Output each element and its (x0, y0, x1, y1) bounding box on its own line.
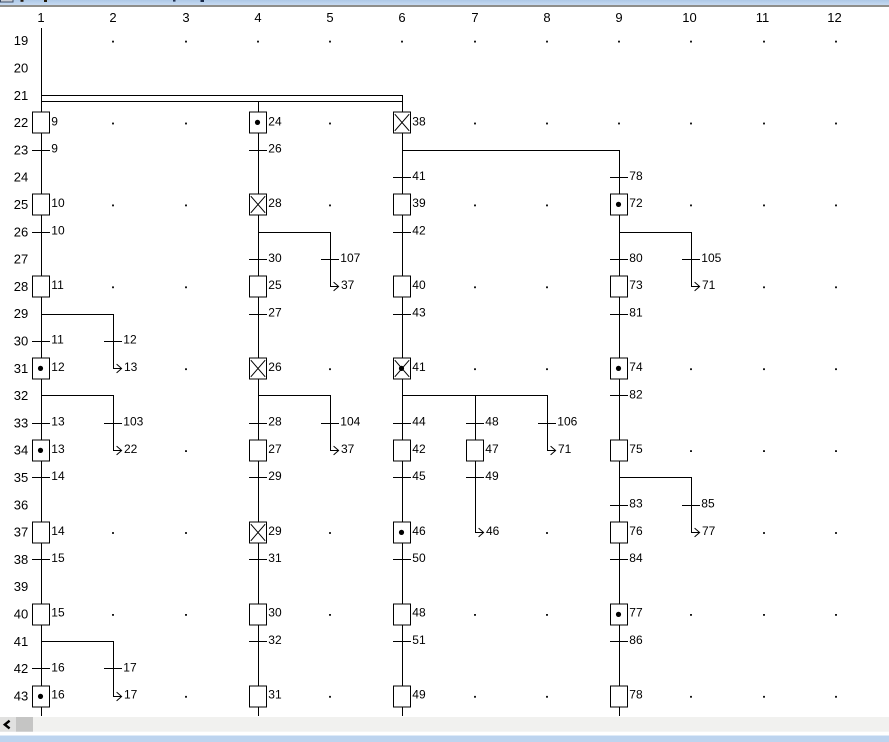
svg-text:28: 28 (268, 196, 282, 210)
step 47 (col 7, row 34) (467, 440, 499, 461)
transition 26 (col 4, row 23) (249, 142, 282, 156)
svg-text:9: 9 (615, 10, 622, 25)
svg-text:39: 39 (14, 579, 28, 594)
transition 41 (col 6, row 24) (393, 169, 426, 183)
svg-text:45: 45 (412, 469, 426, 483)
transition 80 (col 9, row 27) (610, 251, 643, 265)
svg-text:9: 9 (51, 114, 58, 128)
transition 12 (col 2, row 30) (104, 333, 137, 347)
svg-text:74: 74 (629, 360, 643, 374)
svg-text:82: 82 (629, 387, 643, 401)
active step 72 (col 9, row 25) (611, 194, 643, 215)
svg-text:16: 16 (51, 688, 65, 702)
step 31 (col 4, row 43) (250, 686, 282, 707)
step 73 (col 9, row 28) (611, 276, 643, 297)
svg-text:77: 77 (702, 524, 716, 538)
svg-text:8: 8 (543, 10, 550, 25)
transition 51 (col 6, row 41) (393, 633, 426, 647)
transition 84 (col 9, row 38) (610, 551, 643, 565)
step 39 (col 6, row 25) (394, 194, 426, 215)
svg-text:15: 15 (51, 606, 65, 620)
svg-text:86: 86 (629, 633, 643, 647)
svg-text:30: 30 (268, 251, 282, 265)
transition 86 (col 9, row 41) (610, 633, 643, 647)
svg-text:34: 34 (14, 443, 28, 458)
svg-text:32: 32 (268, 633, 282, 647)
step 48 (col 6, row 40) (394, 604, 426, 625)
svg-text:38: 38 (14, 552, 28, 567)
svg-text:3: 3 (182, 10, 189, 25)
step 14 (col 1, row 37) (33, 522, 65, 543)
wire: branch row 29 col1 to col2 (41, 314, 114, 315)
svg-text:72: 72 (629, 196, 643, 210)
svg-text:26: 26 (14, 224, 28, 239)
active step 46 (col 6, row 37) (394, 522, 426, 543)
jump to step 13 (col 2, row 31) (113, 314, 138, 374)
macro step 38 (col 6, row 22) (394, 112, 426, 133)
status bar strip (0, 736, 889, 742)
svg-text:40: 40 (14, 607, 28, 622)
transition 50 (col 6, row 38) (393, 551, 426, 565)
svg-text:48: 48 (485, 415, 499, 429)
svg-text:2: 2 (109, 10, 116, 25)
svg-text:36: 36 (14, 497, 28, 512)
svg-text:35: 35 (14, 470, 28, 485)
wire: col7 drop row 32 to row 37 (475, 395, 476, 532)
step 42 (col 6, row 34) (394, 440, 426, 461)
transition 27 (col 4, row 29) (249, 305, 282, 319)
wire: branch row 32 col6 to col8 (402, 395, 548, 396)
svg-text:10: 10 (682, 10, 696, 25)
svg-text:26: 26 (268, 142, 282, 156)
wire: branch row 35 col9 to col10 (619, 477, 692, 478)
svg-text:12: 12 (51, 360, 65, 374)
transition 9 (col 1, row 23) (32, 142, 58, 156)
svg-text:11: 11 (51, 333, 64, 347)
svg-text:77: 77 (629, 606, 643, 620)
transition 81 (col 9, row 29) (610, 305, 643, 319)
svg-text:27: 27 (268, 442, 282, 456)
transition 85 (col 10, row 36) (682, 497, 715, 511)
jump to step 71 (col 8, row 34) (547, 395, 572, 456)
transition 17 (col 2, row 42) (104, 660, 137, 674)
active macro step 41 (col 6, row 31) (394, 358, 426, 379)
transition 104 (col 5, row 33) (321, 415, 361, 429)
transition 15 (col 1, row 38) (32, 551, 65, 565)
transition 10 (col 1, row 26) (32, 224, 65, 238)
svg-text:33: 33 (14, 415, 28, 430)
svg-text:104: 104 (340, 415, 360, 429)
transition 28 (col 4, row 33) (249, 415, 282, 429)
svg-text:40: 40 (412, 278, 426, 292)
transition 13 (col 1, row 33) (32, 415, 65, 429)
transition 105 (col 10, row 27) (682, 251, 722, 265)
svg-text:107: 107 (340, 251, 360, 265)
svg-text:5: 5 (326, 10, 333, 25)
step 76 (col 9, row 37) (611, 522, 643, 543)
jump to step 17 (col 2, row 43) (113, 641, 138, 702)
svg-text:20: 20 (14, 61, 28, 76)
svg-text:28: 28 (268, 415, 282, 429)
svg-text:13: 13 (51, 442, 65, 456)
svg-text:13: 13 (124, 360, 138, 374)
svg-text:44: 44 (412, 415, 426, 429)
svg-text:25: 25 (14, 197, 28, 212)
svg-text:103: 103 (123, 415, 143, 429)
step 49 (col 6, row 43) (394, 686, 426, 707)
transition 49 (col 7, row 35) (466, 469, 499, 483)
svg-text:83: 83 (629, 497, 643, 511)
svg-text:38: 38 (412, 114, 426, 128)
svg-text:11: 11 (51, 278, 64, 292)
svg-text:31: 31 (268, 551, 282, 565)
step 11 (col 1, row 28) (33, 276, 65, 297)
svg-text:37: 37 (14, 525, 28, 540)
wire: column 1 main rail (41, 28, 42, 716)
svg-text:19: 19 (14, 33, 28, 48)
svg-text:27: 27 (268, 305, 282, 319)
svg-text:39: 39 (412, 196, 426, 210)
svg-text:1: 1 (37, 10, 44, 25)
active step 74 (col 9, row 31) (611, 358, 643, 379)
svg-text:43: 43 (412, 305, 426, 319)
svg-text:4: 4 (254, 10, 261, 25)
step 15 (col 1, row 40) (33, 604, 65, 625)
svg-text:30: 30 (268, 606, 282, 620)
svg-text:10: 10 (51, 224, 65, 238)
svg-text:6: 6 (398, 10, 405, 25)
svg-text:51: 51 (412, 633, 426, 647)
svg-text:71: 71 (702, 278, 716, 292)
svg-text:76: 76 (629, 524, 643, 538)
scrollbar left arrow (5, 721, 10, 729)
wire: column 6 rail (402, 95, 403, 716)
active step 24 (col 4, row 22) (250, 112, 282, 133)
svg-text:29: 29 (14, 306, 28, 321)
svg-text:17: 17 (124, 688, 138, 702)
wire: column 4 rail (258, 101, 259, 716)
transition 44 (col 6, row 33) (393, 415, 426, 429)
svg-text:16: 16 (51, 660, 65, 674)
wire: branch row 23 col6 to col9 (402, 150, 620, 151)
macro step 28 (col 4, row 25) (250, 194, 282, 215)
svg-text:43: 43 (14, 688, 28, 703)
svg-text:80: 80 (629, 251, 643, 265)
step 40 (col 6, row 28) (394, 276, 426, 297)
wire: column 9 rail (619, 150, 620, 716)
active step 16 (col 1, row 43) (33, 686, 65, 707)
step 30 (col 4, row 40) (250, 604, 282, 625)
active step 77 (col 9, row 40) (611, 604, 643, 625)
svg-text:32: 32 (14, 388, 28, 403)
svg-text:75: 75 (629, 442, 643, 456)
svg-text:14: 14 (51, 524, 65, 538)
svg-text:49: 49 (485, 469, 499, 483)
svg-text:22: 22 (124, 442, 138, 456)
jump to step 77 (col 10, row 37) (691, 477, 716, 538)
jump to step 37 (col 5, row 34) (330, 395, 355, 456)
step 25 (col 4, row 28) (250, 276, 282, 297)
svg-text:41: 41 (14, 634, 28, 649)
svg-text:42: 42 (412, 224, 426, 238)
wire: branch row 26 col9 to col10 (619, 232, 692, 233)
transition 11 (col 1, row 30) (32, 333, 64, 347)
transition 14 (col 1, row 35) (32, 469, 65, 483)
wire: branch row 26 col4 to col5 (258, 232, 331, 233)
svg-text:84: 84 (629, 551, 643, 565)
svg-text:24: 24 (14, 170, 28, 185)
svg-text:28: 28 (14, 279, 28, 294)
svg-text:29: 29 (268, 524, 282, 538)
jump to step 71 (col 10, row 28) (691, 232, 716, 292)
step 27 (col 4, row 34) (250, 440, 282, 461)
svg-text:26: 26 (268, 360, 282, 374)
step 78 (col 9, row 43) (611, 686, 643, 707)
transition 30 (col 4, row 27) (249, 251, 282, 265)
divergence double line row 21 (41, 95, 403, 102)
svg-text:106: 106 (557, 415, 577, 429)
svg-text:48: 48 (412, 606, 426, 620)
svg-text:46: 46 (486, 524, 500, 538)
svg-text:21: 21 (14, 88, 28, 103)
svg-text:9: 9 (51, 142, 58, 156)
svg-text:78: 78 (629, 169, 643, 183)
active step 13 (col 1, row 34) (33, 440, 65, 461)
svg-text:13: 13 (51, 415, 65, 429)
svg-text:78: 78 (629, 688, 643, 702)
svg-text:73: 73 (629, 278, 643, 292)
svg-text:25: 25 (268, 278, 282, 292)
svg-text:12: 12 (827, 10, 841, 25)
transition 29 (col 4, row 35) (249, 469, 282, 483)
svg-text:85: 85 (701, 497, 715, 511)
row header numbers 19-43 (14, 33, 28, 703)
transition 42 (col 6, row 26) (393, 224, 426, 238)
transition 106 (col 8, row 33) (538, 415, 578, 429)
svg-text:46: 46 (412, 524, 426, 538)
step 10 (col 1, row 25) (33, 194, 65, 215)
active step 12 (col 1, row 31) (33, 358, 65, 379)
svg-text:31: 31 (14, 361, 28, 376)
svg-text:41: 41 (412, 360, 426, 374)
svg-text:10: 10 (51, 196, 65, 210)
transition 16 (col 1, row 42) (32, 660, 65, 674)
svg-text:37: 37 (341, 442, 355, 456)
svg-text:29: 29 (268, 469, 282, 483)
transition 43 (col 6, row 29) (393, 305, 426, 319)
step 9 (col 1, row 22) (33, 112, 59, 133)
transition 103 (col 2, row 33) (104, 415, 144, 429)
svg-text:14: 14 (51, 469, 65, 483)
jump to step 22 (col 2, row 34) (113, 395, 138, 456)
svg-text:30: 30 (14, 334, 28, 349)
macro step 29 (col 4, row 37) (250, 522, 282, 543)
transition 82 (col 9, row 32) (610, 387, 643, 401)
svg-text:50: 50 (412, 551, 426, 565)
wire: branch row 32 col4 to col5 (258, 395, 331, 396)
macro step 26 (col 4, row 31) (250, 358, 282, 379)
wire: branch row 32 col1 to col2 (41, 395, 114, 396)
transition 45 (col 6, row 35) (393, 469, 426, 483)
transition 48 (col 7, row 33) (466, 415, 499, 429)
transition 83 (col 9, row 36) (610, 497, 643, 511)
svg-text:12: 12 (123, 333, 137, 347)
transition 78 (col 9, row 24) (610, 169, 643, 183)
jump to step 46 (col 7, row 37) (475, 524, 500, 538)
svg-text:41: 41 (412, 169, 426, 183)
svg-text:7: 7 (471, 10, 478, 25)
svg-text:37: 37 (341, 278, 355, 292)
svg-text:23: 23 (14, 142, 28, 157)
scrollbar thumb (16, 717, 33, 732)
svg-text:15: 15 (51, 551, 65, 565)
column header numbers 1-12 (37, 10, 841, 25)
svg-text:31: 31 (268, 688, 282, 702)
svg-text:49: 49 (412, 688, 426, 702)
svg-text:42: 42 (412, 442, 426, 456)
svg-text:42: 42 (14, 661, 28, 676)
svg-text:47: 47 (485, 442, 499, 456)
svg-text:27: 27 (14, 252, 28, 267)
step 75 (col 9, row 34) (611, 440, 643, 461)
horizontal scrollbar track (0, 717, 889, 732)
svg-text:22: 22 (14, 115, 28, 130)
transition 32 (col 4, row 41) (249, 633, 282, 647)
svg-text:71: 71 (558, 442, 572, 456)
svg-text:17: 17 (123, 660, 137, 674)
jump to step 37 (col 5, row 28) (330, 232, 355, 292)
svg-text:105: 105 (701, 251, 721, 265)
svg-text:24: 24 (268, 114, 282, 128)
svg-text:11: 11 (756, 10, 770, 25)
transition 107 (col 5, row 27) (321, 251, 361, 265)
svg-text:81: 81 (629, 305, 643, 319)
wire: branch row 41 col1 to col2 (41, 641, 114, 642)
transition 31 (col 4, row 38) (249, 551, 282, 565)
